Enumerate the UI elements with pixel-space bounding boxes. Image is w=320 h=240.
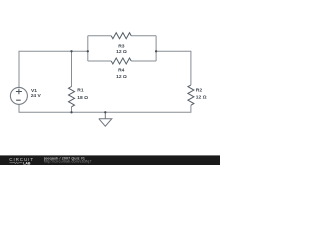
svg-text:R4: R4	[118, 67, 125, 73]
V1 plus sign	[16, 89, 22, 95]
resistor R1 zigzag	[69, 87, 75, 107]
resistor R2 zigzag	[188, 85, 194, 105]
svg-text:18 Ω: 18 Ω	[77, 95, 88, 101]
wire top branch leads (R3)	[88, 35, 156, 37]
wire parallel loop right vertical	[155, 36, 157, 61]
svg-text:R2: R2	[196, 88, 203, 94]
junction node: R1 bottom	[70, 111, 72, 113]
svg-text:R3: R3	[118, 43, 125, 49]
resistor R3 zigzag	[111, 33, 131, 39]
ground symbol	[99, 112, 112, 126]
junction node: loop left	[87, 50, 89, 52]
voltage source V1 circle	[10, 87, 27, 104]
wire bottom branch leads (R4)	[88, 60, 156, 62]
svg-text:R1: R1	[77, 88, 84, 94]
svg-text:LAB: LAB	[23, 161, 31, 165]
svg-text:24 V: 24 V	[31, 93, 42, 99]
resistor R4 zigzag	[111, 58, 131, 64]
svg-text:http://circuitlab.com/c63fq7: http://circuitlab.com/c63fq7	[44, 159, 92, 163]
svg-text:12 Ω: 12 Ω	[116, 49, 127, 55]
junction node: ground	[104, 111, 106, 113]
junction node: loop right	[155, 50, 157, 52]
wire bottom rail	[19, 104, 191, 112]
footer CircuitLab logo	[9, 157, 34, 165]
svg-text:12 Ω: 12 Ω	[116, 74, 127, 80]
wire top rail left: V1 top to loop left	[19, 51, 88, 87]
V1 minus sign	[16, 99, 21, 101]
wire R1 branch leads	[71, 51, 73, 112]
wire parallel loop left vertical	[87, 36, 89, 61]
junction node: R1 top	[70, 50, 72, 52]
wire top rail right: loop right to R2 top	[156, 51, 191, 85]
svg-text:12 Ω: 12 Ω	[196, 95, 207, 101]
footer bar	[0, 155, 220, 165]
